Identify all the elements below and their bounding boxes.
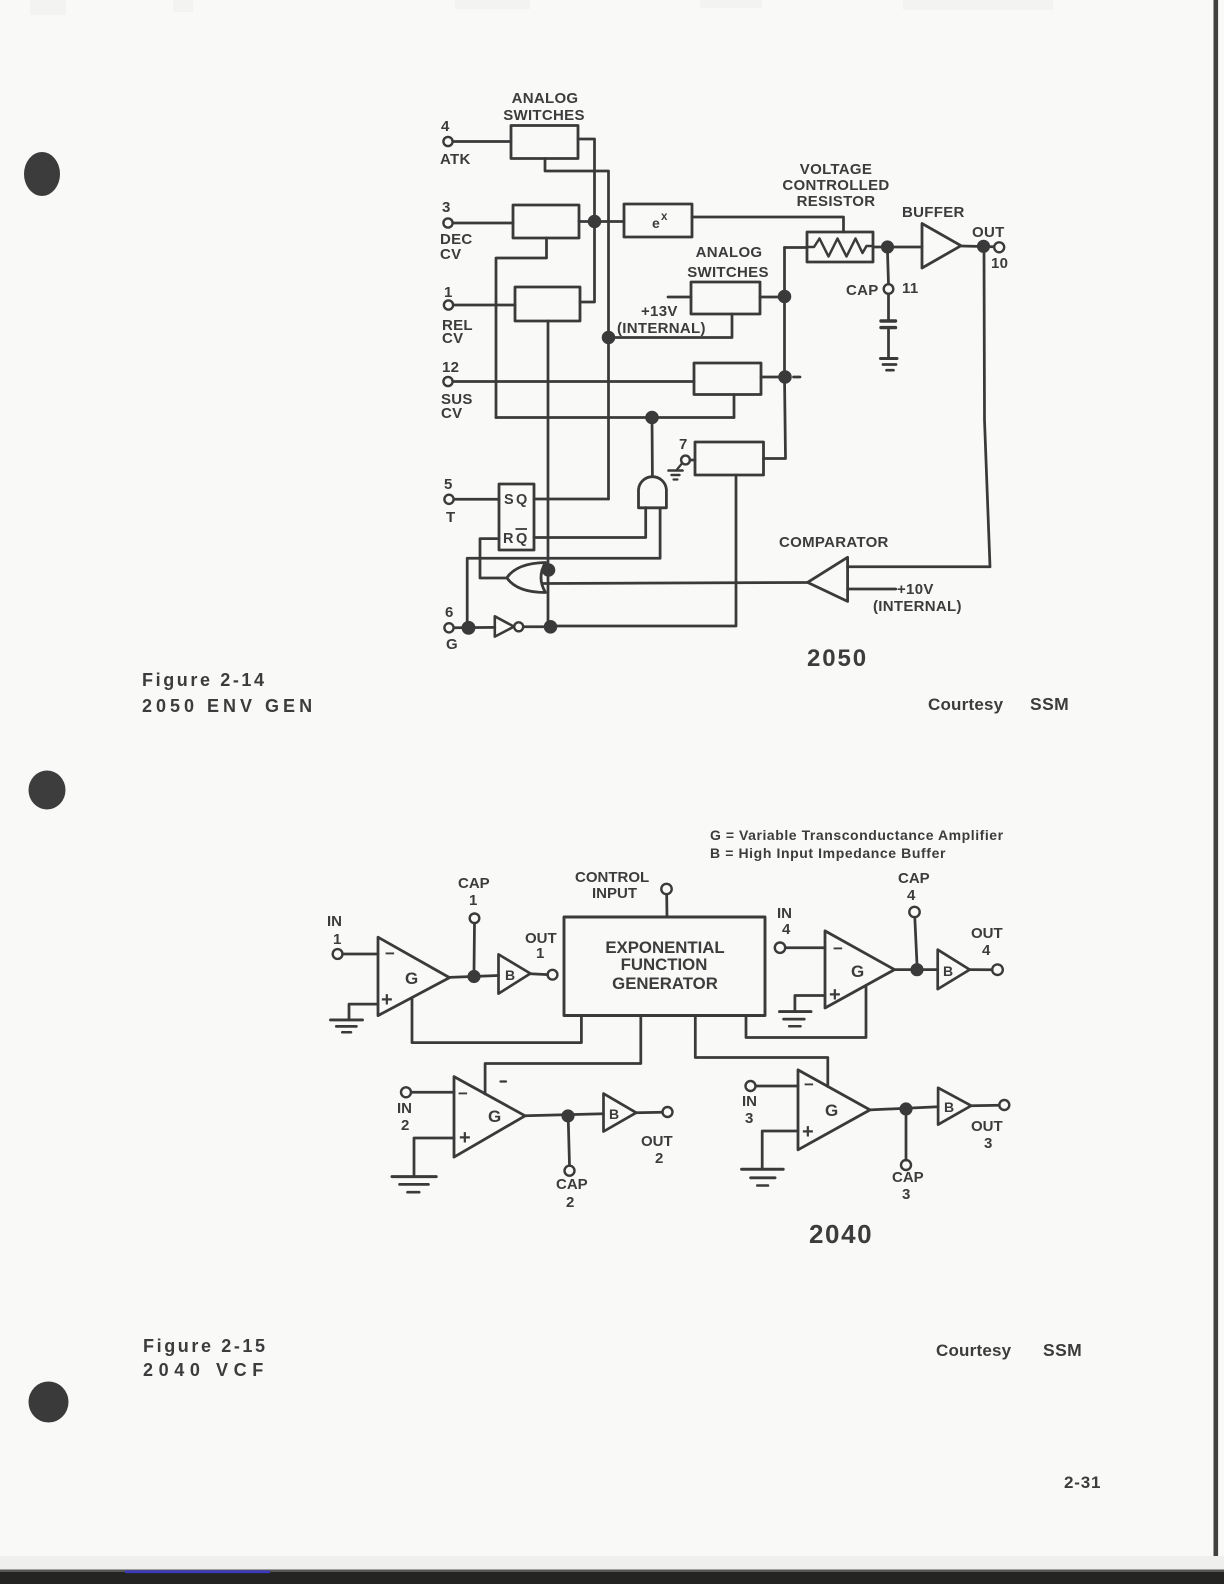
comparator U10 triangle [808,557,848,601]
svg-text:IN: IN [777,905,792,922]
wire G3 plus to ground [762,1131,798,1168]
capacitor C1 plates [881,319,896,322]
svg-text:VOLTAGE: VOLTAGE [800,161,872,178]
svg-text:SSM: SSM [1043,1340,1082,1360]
svg-text:2040: 2040 [809,1219,873,1249]
svg-text:2040 VCF: 2040 VCF [143,1360,269,1380]
svg-text:+: + [459,1127,471,1149]
svg-text:3: 3 [984,1135,992,1152]
wire CAP branch down [888,252,889,284]
node IN2 terminal [401,1087,411,1097]
wire T input to FF S [454,498,499,501]
exponential function generator box [564,917,765,1016]
svg-text:OUT: OUT [641,1133,673,1150]
node junction bus A / DEC out [589,216,600,227]
wire U2 output to e^x [579,220,624,223]
svg-text:6: 6 [445,604,454,621]
node pin12 SUS terminal [443,377,452,386]
wire G4 plus to ground [795,996,825,1011]
svg-text:2: 2 [401,1117,409,1134]
svg-text:2: 2 [655,1150,663,1167]
wire AND output up to rail [651,418,654,476]
svg-text:IN: IN [742,1093,757,1110]
svg-text:4: 4 [441,118,450,135]
ground at G3 [742,1168,784,1171]
svg-text:(INTERNAL): (INTERNAL) [617,320,706,337]
wire G1 plus to ground [349,1004,378,1018]
svg-text:ATK: ATK [440,151,471,168]
svg-text:FUNCTION: FUNCTION [621,955,708,974]
analog switch U4 (+13V) [691,282,760,314]
wire IN3 to G3 minus [756,1085,798,1088]
wire G3 output [870,1107,938,1110]
svg-text:3: 3 [902,1186,910,1203]
wire AND input2 from G-bar [467,508,660,628]
wire CAP2 down from node [568,1121,569,1166]
svg-text:CONTROL: CONTROL [575,869,649,886]
svg-text:1: 1 [333,931,341,948]
svg-text:IN: IN [397,1100,412,1117]
wire U5 output to summing bus [761,376,785,379]
hole punch dot top [24,152,60,196]
buffer amplifier triangle [922,224,961,269]
node IN3 terminal [746,1081,756,1091]
wire comparator output to OR input [543,583,808,584]
wire SUS input long [453,380,694,383]
svg-text:G: G [488,1107,501,1126]
node OUT3 terminal [999,1100,1009,1110]
wire B2 output to OUT2 [636,1111,662,1114]
svg-text:G: G [405,969,418,988]
op-amp G3 triangle [798,1070,870,1150]
node pin6 G terminal [444,623,453,632]
node junction VCR out / CAP [882,242,892,252]
minus artifact dash [794,376,801,379]
node CONTROL INPUT terminal [661,884,671,894]
wire CAP3 down from node [905,1114,908,1160]
svg-text:3: 3 [442,199,451,216]
wire FF Q output to bus B [534,498,609,501]
wire ATK input [453,140,511,143]
buffer B3 triangle [938,1088,971,1125]
svg-text:Q: Q [516,492,528,508]
svg-text:1: 1 [469,892,477,909]
wire U2 bottom stub route [496,238,547,418]
wire U3 output up to bus A [580,221,595,302]
node junction G1 out / CAP1 [469,971,479,981]
svg-text:−: − [804,1075,814,1094]
svg-text:SWITCHES: SWITCHES [503,107,585,124]
analog switch U5 (SUS) [694,363,761,395]
svg-text:G = Variable Transconductance: G = Variable Transconductance Amplifier [710,827,1004,843]
svg-text:R: R [503,531,514,547]
OR gate U9 (pointing left) [507,563,546,593]
node pin3 DEC terminal [443,218,452,227]
svg-text:G: G [851,962,864,981]
wire summing bus to VCR input [785,246,808,249]
svg-text:Figure 2-15: Figure 2-15 [143,1336,268,1356]
buffer B1 triangle [499,954,531,993]
node junction G2 out / CAP2 [563,1111,573,1121]
wire AND-output distribution rail [496,416,734,419]
svg-text:SSM: SSM [1030,694,1069,714]
wire FF Qbar output to AND input1 [534,508,646,538]
wire EFG stub to G2 feedback [485,1016,641,1095]
svg-text:SWITCHES: SWITCHES [687,264,769,281]
svg-text:ANALOG: ANALOG [512,90,579,107]
buffer B2 triangle [604,1094,637,1132]
wire U4 bottom stub to bus B junction [609,314,733,338]
svg-text:B: B [505,967,515,983]
svg-text:12: 12 [442,359,459,376]
wire comparator lower input +10V [848,588,896,591]
svg-text:CAP: CAP [458,875,490,892]
svg-text:5: 5 [444,476,453,493]
node junction bus B [603,332,614,343]
svg-text:1: 1 [444,284,453,301]
hole punch dot middle [29,771,66,810]
wire U6 bottom stub to G-bar rail [551,475,737,626]
svg-text:Courtesy: Courtesy [936,1341,1012,1360]
svg-text:G: G [446,636,458,653]
op-amp G4 triangle [825,931,895,1008]
wire IN1 to G1 minus [343,953,378,956]
node junction G4 out / CAP4 [912,965,922,975]
ground at pin7 [677,464,682,470]
node junction G-bar / REL control [543,565,554,576]
svg-text:OUT: OUT [971,1118,1003,1135]
wire summing bus vertical [764,248,786,459]
node junction G-bar rail [545,621,556,632]
svg-text:CAP: CAP [892,1169,924,1186]
wire U5 bottom stub [733,395,736,418]
node pin11 CAP terminal [884,284,894,294]
svg-text:4: 4 [907,887,916,904]
svg-text:S: S [504,492,514,508]
svg-text:−: − [833,939,843,958]
minus artifact dash above G2 [501,1080,507,1082]
svg-text:e: e [652,215,660,231]
svg-text:INPUT: INPUT [592,885,637,902]
svg-text:G: G [825,1101,838,1120]
wire pin7 to U6 [690,459,695,462]
svg-text:COMPARATOR: COMPARATOR [779,534,889,551]
svg-text:Q: Q [516,531,528,547]
ground at G2 [392,1175,436,1178]
op-amp G2 triangle [454,1077,525,1158]
node OUT4 terminal [992,964,1003,975]
label Qbar overbar [516,528,528,530]
node pin7 terminal [681,456,690,465]
svg-text:11: 11 [902,280,918,297]
wire G2 output [525,1114,603,1116]
svg-text:GENERATOR: GENERATOR [612,974,718,993]
analog switch U3 (REL) [515,287,580,321]
svg-text:2050: 2050 [807,645,868,672]
svg-text:+13V: +13V [641,303,678,320]
page right edge rule [1214,0,1219,1571]
svg-text:B: B [609,1106,619,1122]
svg-text:CAP: CAP [898,870,930,887]
svg-text:CV: CV [441,405,462,422]
wire OUT feedback down to comparator [848,251,991,567]
ground below capacitor [881,357,898,360]
analog switch U6 (pin7) [695,442,764,475]
svg-text:1: 1 [536,945,544,962]
wire CAP terminal to capacitor [887,294,890,319]
svg-text:IN: IN [327,913,342,930]
svg-text:RESISTOR: RESISTOR [797,193,876,210]
wire G1 output [450,976,499,978]
svg-text:Figure 2-14: Figure 2-14 [142,670,267,690]
wire U4 output to summing bus [760,296,785,299]
wire IN4 to G4 minus [785,946,825,949]
inverter U11 triangle [495,616,514,636]
faint scanner marks top [30,0,1053,15]
wire CAP1 down to node [473,923,476,971]
AND gate U8 [639,477,667,508]
svg-text:−: − [458,1084,468,1103]
analog switch U2 (DEC) [513,205,579,238]
wire DEC input [453,222,513,225]
wire VCR output [873,246,922,249]
svg-text:CV: CV [442,330,463,347]
flip-flop U7 box [499,484,534,550]
bottom black bar [0,1570,1224,1584]
wire control input down [665,894,668,917]
svg-text:Courtesy: Courtesy [928,695,1004,714]
wire G4 feedback loop [746,986,866,1038]
wire B4 output to OUT4 [970,968,992,971]
inverter bubble [514,622,523,631]
op-amp G1 triangle [378,937,450,1015]
wire U1 bottom stub to bus B [545,159,609,500]
analog switch U1 (ATK) [511,126,578,159]
svg-text:BUFFER: BUFFER [902,204,965,221]
svg-text:ANALOG: ANALOG [696,244,763,261]
svg-text:2: 2 [566,1194,574,1211]
svg-text:B: B [944,1099,954,1115]
node junction G3 out / CAP3 [901,1104,911,1114]
svg-text:+: + [829,984,841,1006]
node pin4 ATK terminal [443,137,452,146]
svg-text:(INTERNAL): (INTERNAL) [873,598,962,615]
node junction AND output rail [647,412,658,423]
node IN1 terminal [333,949,343,959]
wire buffer output to OUT [961,245,994,249]
svg-text:CAP: CAP [846,282,879,299]
wire EFG stub to G3 feedback [695,1016,828,1087]
voltage controlled resistor box [807,232,873,262]
blue pen line bottom left [125,1571,270,1574]
svg-text:4: 4 [982,942,991,959]
node CAP1 terminal [470,914,480,924]
node junction summing/U5 [780,372,791,383]
svg-text:x: x [661,211,668,223]
wire G1 feedback loop [412,998,581,1043]
svg-text:CV: CV [440,246,461,263]
node OUT2 terminal [663,1107,673,1117]
svg-text:CONTROLLED: CONTROLLED [782,177,889,194]
svg-text:4: 4 [782,921,791,938]
buffer B4 triangle [938,950,970,989]
svg-text:2050 ENV GEN: 2050 ENV GEN [142,696,316,716]
bottom greyish wash [0,1556,1224,1572]
node pin10 OUT terminal [994,242,1004,252]
wire G4 output [895,968,938,971]
node IN4 terminal [775,943,785,953]
node junction OUT feedback [978,241,988,251]
node CAP4 terminal [909,907,919,917]
svg-text:3: 3 [745,1110,753,1127]
node CAP3 terminal [901,1160,911,1170]
svg-text:+10V: +10V [897,581,934,598]
svg-text:+: + [381,989,393,1011]
wire U1 output to vertical bus A [578,139,595,221]
wire inverter output G-bar [523,625,550,628]
wire IN2 to G2 minus [411,1091,454,1094]
wire CAP4 down to node [915,917,917,964]
hole punch dot bottom [29,1382,69,1423]
wire G2 plus to ground [414,1138,454,1175]
svg-text:+: + [802,1121,814,1143]
exponential converter e^x box [624,204,692,237]
wire capacitor to ground [887,329,890,357]
svg-text:B = High Input Impedance Buffe: B = High Input Impedance Buffer [710,845,946,861]
svg-text:OUT: OUT [971,925,1003,942]
ground at G4 [780,1010,812,1013]
svg-text:7: 7 [679,436,688,453]
wire B3 output to OUT3 [971,1104,999,1107]
node junction summing/U4 [779,291,790,302]
node pin1 REL terminal [444,300,453,309]
wire B1 output to OUT1 [530,972,547,976]
svg-text:CAP: CAP [556,1176,588,1193]
ground at G1 [331,1018,363,1021]
node CAP2 terminal [565,1166,575,1176]
resistor zigzag [807,239,873,257]
wire +13V stub into U4 [668,296,691,299]
svg-text:−: − [385,944,395,963]
wire OR input stub from G-bar node [542,569,548,572]
node OUT1 terminal [548,970,558,980]
node junction G input branch [463,622,474,633]
node pin5 T terminal [444,495,453,504]
svg-text:B: B [943,963,953,979]
wire FF R input from OR output [480,539,507,578]
svg-text:OUT: OUT [972,224,1005,241]
svg-text:2-31: 2-31 [1064,1473,1101,1492]
wire REL input [454,304,516,307]
wire e^x output to VCR control [692,217,844,232]
wire G input [454,626,495,629]
wire U3 bottom stub long down [547,321,550,627]
svg-text:T: T [446,509,455,526]
svg-text:10: 10 [991,255,1008,272]
